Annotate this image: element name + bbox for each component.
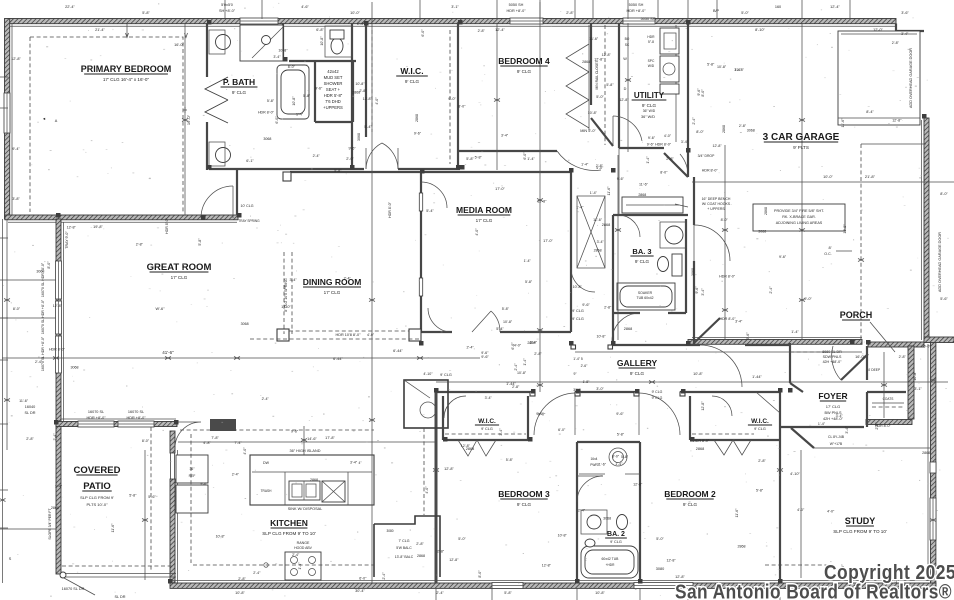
svg-text:9' CLG: 9' CLG (754, 427, 766, 431)
wall south (170, 581, 936, 589)
dim ext top 3 (496, 0, 498, 19)
dim line y529 left (0, 528, 56, 530)
svg-text:TRASH: TRASH (261, 489, 273, 493)
dim ext left 5 (0, 423, 8, 425)
svg-text:KITCHEN: KITCHEN (270, 518, 308, 528)
svg-text:W.I.C.: W.I.C. (751, 418, 769, 425)
svg-text:2'-8": 2'-8" (666, 157, 674, 161)
svg-text:10'-8": 10'-8" (558, 533, 568, 537)
svg-text:PLTS 10'-0": PLTS 10'-0" (86, 502, 108, 507)
svg-text:5'0x5'0: 5'0x5'0 (221, 3, 233, 7)
svg-text:5'-0": 5'-0" (596, 95, 604, 99)
svg-text:11'-6": 11'-6" (597, 462, 607, 466)
svg-text:3068: 3068 (758, 229, 766, 233)
dim line y280 left (0, 279, 56, 281)
svg-text:1'-4": 1'-4" (55, 485, 63, 489)
wall garage-NE-jog (896, 24, 924, 32)
dashed kitchen slope (180, 419, 374, 563)
svg-text:2868: 2868 (415, 114, 419, 122)
label gallery (573, 357, 662, 400)
dim ext top 1 (261, 0, 263, 19)
door linen double (366, 143, 398, 169)
svg-text:HDR +8'-0": HDR +8'-0" (626, 9, 646, 13)
svg-text:7'-8": 7'-8" (211, 436, 219, 440)
svg-text:12'-8": 12'-8" (11, 57, 21, 61)
wall ba3-west x613 (612, 215, 686, 345)
svg-text:5'-0": 5'-0" (656, 537, 664, 541)
svg-text:5'-8": 5'-8" (129, 493, 137, 497)
window greatsouth W7 (78, 421, 114, 427)
wall pbath-west x207 (207, 23, 237, 215)
svg-text:SOAKER: SOAKER (638, 291, 653, 295)
dashed kitchen 2 (193, 563, 374, 567)
dim vert left a (2, 219, 4, 583)
svg-text:9' CLG: 9' CLG (517, 69, 532, 74)
svg-text:2'-4": 2'-4" (382, 572, 386, 580)
svg-text:12'-8": 12'-8" (892, 118, 902, 122)
svg-text:4": 4" (359, 461, 362, 465)
svg-text:HDR +8'-0": HDR +8'-0" (506, 9, 526, 13)
fixture utility counter (625, 35, 656, 68)
label bedroom3 (498, 489, 550, 507)
wall pbath-south (209, 168, 460, 170)
svg-text:3068: 3068 (263, 137, 271, 141)
svg-text:3'-4": 3'-4" (501, 134, 509, 138)
door bedroom3 (530, 392, 580, 435)
svg-text:2'-8": 2'-8" (604, 305, 612, 309)
dim line y350 gallery (575, 351, 862, 353)
svg-text:RK. X-BRACE GAR.: RK. X-BRACE GAR. (782, 215, 816, 219)
door patio (175, 422, 201, 448)
svg-text:ADD OVERHEAD GARAGE DOOR: ADD OVERHEAD GARAGE DOOR (938, 232, 942, 292)
svg-text:30'-4": 30'-4" (355, 589, 365, 593)
svg-text:7'6 DHD: 7'6 DHD (325, 99, 341, 104)
svg-text:SHOWER: SHOWER (324, 81, 343, 86)
fixture ba3 sink (660, 222, 686, 248)
svg-text:8'-0": 8'-0" (458, 105, 466, 109)
svg-text:17' CLG 16'-4" x 16'-0": 17' CLG 16'-4" x 16'-0" (103, 77, 150, 82)
svg-text:5'-8": 5'-8" (525, 280, 533, 284)
svg-text:2'-4": 2'-4" (253, 571, 261, 575)
svg-text:10'-8": 10'-8" (693, 372, 703, 376)
dim ext top 4 (539, 0, 541, 19)
svg-text:12'-8": 12'-8" (67, 226, 77, 230)
wall east-lower (928, 340, 936, 583)
svg-text:1'-4": 1'-4" (818, 422, 826, 426)
svg-text:12'-8": 12'-8" (461, 444, 471, 448)
svg-text:3'-4": 3'-4" (836, 414, 844, 418)
dim ext bottom 4 (687, 588, 689, 600)
label bedroom4 (498, 56, 550, 74)
svg-text:PROVIDE 3/4" FIRE 5/8" SHT.: PROVIDE 3/4" FIRE 5/8" SHT. (774, 209, 824, 213)
wall greatroom-south (56, 419, 177, 427)
svg-text:4'-10": 4'-10" (790, 472, 800, 476)
svg-text:9'-6": 9'-6" (348, 146, 356, 150)
fixture dryer (660, 56, 679, 94)
svg-text:5"-8: 5"-8 (648, 40, 654, 44)
svg-text:4'-6": 4'-6" (301, 5, 309, 9)
svg-text:2'-4": 2'-4" (313, 154, 321, 158)
window greatwest W6b (56, 336, 62, 373)
door ba3 (618, 215, 640, 237)
dim line x618 (617, 155, 619, 340)
svg-text:2868: 2868 (594, 248, 602, 252)
svg-text:ADD OVERHEAD GARAGE DOOR: ADD OVERHEAD GARAGE DOOR (909, 48, 913, 108)
svg-text:36" HIGH ISLAND: 36" HIGH ISLAND (290, 449, 321, 453)
svg-text:2868: 2868 (51, 506, 59, 510)
svg-text:14'-6": 14'-6" (307, 437, 317, 441)
dashed study (765, 564, 830, 566)
svg-text:8'-4": 8'-4" (866, 110, 874, 114)
label patio (82, 481, 111, 492)
svg-text:2'-4": 2'-4" (514, 363, 518, 371)
svg-text:9'-6": 9'-6" (648, 136, 656, 140)
svg-text:DW: DW (263, 461, 270, 465)
svg-text:3'-4": 3'-4" (735, 320, 743, 324)
svg-text:5'-4": 5'-4" (364, 125, 372, 129)
fixture ba2 tub (581, 546, 638, 578)
svg-text:10'-0": 10'-0" (823, 175, 833, 179)
wall garage-east (922, 118, 930, 342)
svg-text:10'-8": 10'-8" (595, 591, 605, 595)
svg-text:6'-0": 6'-0" (538, 412, 546, 416)
svg-text:2'-8": 2'-8" (566, 11, 574, 15)
svg-text:17'-8": 17'-8" (325, 436, 335, 440)
svg-text:19'-8": 19'-8" (93, 225, 103, 229)
dim ext bottom 2 (576, 588, 578, 600)
dim line y380 gallery (436, 381, 948, 383)
svg-text:PORCH: PORCH (840, 310, 873, 320)
dim ext left 6 (0, 489, 8, 491)
wall foyer-west x790 (790, 343, 803, 392)
fixture tub primary (277, 65, 309, 119)
fixture island dw (322, 481, 345, 502)
porch leader (870, 322, 895, 352)
svg-text:W.I.C.: W.I.C. (478, 418, 496, 425)
svg-text:12'-8": 12'-8" (713, 144, 723, 148)
svg-text:◄: ◄ (42, 117, 46, 121)
label ba2 (605, 531, 627, 544)
label pbath (221, 77, 258, 95)
svg-text:11'-6": 11'-6" (841, 118, 845, 128)
window top W1 (240, 18, 278, 24)
dim line x884 porch (883, 352, 885, 418)
dim ext top 5 (574, 0, 576, 19)
svg-text:MIN 5'-0": MIN 5'-0" (580, 129, 596, 133)
svg-text:3068: 3068 (241, 322, 249, 326)
svg-text:11'-6": 11'-6" (589, 37, 599, 41)
svg-text:3'-4": 3'-4" (499, 428, 503, 436)
svg-text:10' CLG: 10' CLG (240, 204, 253, 208)
svg-text:5'-8": 5'-8" (303, 94, 311, 98)
svg-text:9'-6": 9'-6" (291, 430, 299, 434)
svg-text:9'-6": 9'-6" (414, 132, 422, 136)
svg-text:1'-44": 1'-44" (752, 375, 762, 379)
svg-text:5'-4": 5'-4" (496, 327, 504, 331)
dim ext top 11 (801, 0, 803, 19)
svg-text:9' CLG: 9' CLG (572, 317, 584, 321)
svg-text:1'-4": 1'-4" (357, 22, 365, 26)
svg-text:GALLERY: GALLERY (617, 358, 658, 368)
door ba2 (577, 476, 603, 502)
svg-text:TRAY SPRING: TRAY SPRING (238, 219, 260, 223)
svg-text:5'-8": 5'-8" (466, 157, 474, 161)
wall ne-band (924, 337, 954, 343)
svg-text:13'-8" BALC: 13'-8" BALC (395, 555, 414, 559)
svg-text:7' CLG: 7' CLG (398, 539, 409, 543)
fixture ba2 toilet (617, 515, 628, 530)
svg-text:BEDROOM 3: BEDROOM 3 (498, 489, 550, 499)
svg-text:12'-8": 12'-8" (542, 563, 552, 567)
svg-text:17' CLG: 17' CLG (826, 404, 841, 409)
svg-text:3'-0": 3'-0" (596, 387, 604, 391)
dim ext bottom 5 (779, 588, 781, 600)
fixture ba2 sink (581, 510, 607, 547)
svg-text:9'-6": 9'-6" (695, 286, 699, 294)
fixture mudshower walls (315, 62, 353, 122)
svg-text:16070 SL HDR +8'-0": 16070 SL HDR +8'-0" (41, 336, 45, 371)
wall media-east x571 (571, 172, 605, 332)
dim ext bottom 3 (639, 588, 641, 600)
label media room (456, 205, 512, 223)
svg-text:2868: 2868 (722, 125, 726, 133)
wall bed4-south (458, 151, 601, 170)
svg-text:16'-0": 16'-0" (855, 355, 865, 359)
dim ext left 1 (0, 107, 8, 109)
label ba3 (630, 247, 653, 264)
svg-text:SLOPE 3/4" PER FT: SLOPE 3/4" PER FT (48, 508, 52, 539)
svg-text:+ UPPERS: + UPPERS (707, 207, 725, 211)
dim ext bottom 0 (435, 588, 437, 600)
window south W10 (634, 583, 693, 589)
note range (294, 541, 312, 550)
dashed dining opening (284, 252, 292, 334)
door bed3 wic (444, 396, 466, 418)
svg-text:6'-0": 6'-0" (421, 29, 425, 37)
svg-text:11'-6": 11'-6" (111, 523, 115, 533)
svg-text:9' CLG: 9' CLG (440, 373, 452, 377)
svg-text:6'-1": 6'-1" (246, 159, 254, 163)
svg-text:9' CLG: 9' CLG (635, 259, 650, 264)
door bedroom2 (634, 392, 685, 435)
svg-text:2868: 2868 (922, 451, 930, 455)
door utility (664, 153, 715, 177)
svg-text:2'-4": 2'-4" (578, 508, 586, 512)
svg-text:8080 SL DR: 8080 SL DR (822, 350, 842, 354)
svg-text:6'-44": 6'-44" (393, 349, 403, 353)
svg-text:SL DR: SL DR (24, 411, 35, 415)
svg-text:3'-4": 3'-4" (901, 32, 909, 36)
wall study-diag (791, 428, 845, 578)
svg-text:2'-4": 2'-4" (692, 117, 696, 125)
svg-text:2'-4": 2'-4" (292, 553, 300, 557)
note entry (822, 350, 881, 372)
window south W9 (492, 583, 523, 589)
svg-text:8'-0": 8'-0" (612, 455, 620, 459)
svg-text:12'-8": 12'-8" (444, 467, 454, 471)
svg-text:3/4" DROP: 3/4" DROP (698, 154, 715, 158)
svg-text:1'-4": 1'-4" (791, 330, 799, 334)
note foyer sub (823, 404, 844, 421)
svg-text:5'-8": 5'-8" (617, 433, 625, 437)
svg-text:7'-4": 7'-4" (234, 441, 242, 445)
svg-text:1'-4" 5: 1'-4" 5 (573, 357, 583, 361)
svg-text:11'-6": 11'-6" (607, 186, 611, 196)
svg-text:12'-8": 12'-8" (53, 304, 63, 308)
svg-text:PATIO: PATIO (83, 481, 111, 492)
svg-text:BEDROOM 4: BEDROOM 4 (498, 56, 550, 66)
svg-text:12'-4": 12'-4" (830, 5, 840, 9)
door bed2 wic (712, 396, 732, 416)
svg-text:3'-6": 3'-6" (901, 11, 909, 15)
svg-text:10'-8": 10'-8" (597, 335, 607, 339)
svg-text:9' CLG: 9' CLG (517, 502, 532, 507)
svg-text:6'-0": 6'-0" (359, 576, 367, 580)
svg-text:COVERED: COVERED (74, 465, 121, 476)
svg-text:16070 SL HDR +8'-0": 16070 SL HDR +8'-0" (41, 299, 45, 334)
svg-text:STUDY: STUDY (845, 516, 876, 526)
svg-text:17' CLG: 17' CLG (324, 290, 341, 295)
svg-text:HDR 8'-0": HDR 8'-0" (655, 143, 672, 147)
label wic bed3 (475, 418, 499, 431)
svg-text:ADJOINING LIVING AREAS: ADJOINING LIVING AREAS (776, 221, 823, 225)
svg-text:8'-10": 8'-10" (755, 28, 765, 32)
svg-text:10'-8": 10'-8" (503, 320, 513, 324)
svg-text:11'-6": 11'-6" (19, 399, 29, 403)
wall pbath-hall (283, 23, 356, 61)
fixture island (250, 455, 374, 505)
svg-text:12'-8": 12'-8" (449, 558, 459, 562)
svg-text:B/P: B/P (713, 9, 720, 13)
svg-text:9' CLG: 9' CLG (683, 502, 698, 507)
svg-text:3068: 3068 (71, 366, 79, 370)
fixture toilet primary (325, 26, 352, 57)
dim line y182 garage (692, 174, 954, 182)
dim ext left 4 (0, 359, 8, 361)
svg-text:3'-4": 3'-4" (845, 426, 849, 434)
svg-text:2'-8": 2'-8" (739, 124, 747, 128)
closet foyer (872, 397, 904, 407)
svg-text:160: 160 (775, 5, 781, 9)
label wic bed2 (748, 418, 772, 431)
garage storage alcove (838, 31, 920, 125)
svg-text:TRAY 9'-0": TRAY 9'-0" (65, 231, 69, 249)
svg-text:HDR 8'-0": HDR 8'-0" (49, 348, 66, 352)
wall wic-west x366 (365, 23, 367, 137)
svg-text:8'-0": 8'-0" (288, 65, 296, 69)
svg-text:12'-8": 12'-8" (675, 575, 685, 579)
svg-text:2868: 2868 (582, 60, 590, 64)
svg-text:4'-0": 4'-0" (475, 228, 479, 236)
svg-text:SL DR: SL DR (114, 595, 125, 599)
closet bed3 wic (443, 396, 528, 456)
note storage text (909, 48, 913, 108)
svg-text:UTILITY: UTILITY (634, 91, 665, 100)
svg-text:12'-8": 12'-8" (701, 401, 705, 411)
closet bed2 wic (690, 392, 780, 455)
svg-text:MUD SET: MUD SET (324, 75, 343, 80)
svg-text:HDR 8'-0": HDR 8'-0" (693, 439, 710, 443)
svg-text:3068: 3068 (747, 129, 755, 133)
svg-text:3'-1": 3'-1" (914, 387, 922, 391)
svg-text:9' CLG: 9' CLG (642, 103, 657, 108)
svg-text:HDR 5'-8": HDR 5'-8" (324, 93, 343, 98)
svg-text:21'-8": 21'-8" (865, 174, 876, 179)
svg-text:HDR: HDR (647, 35, 655, 39)
svg-text:10'-8": 10'-8" (517, 371, 527, 375)
svg-text:HDR 8'-0": HDR 8'-0" (719, 275, 736, 279)
svg-text:9' CLG: 9' CLG (610, 540, 622, 544)
wall mud-top (613, 148, 688, 215)
wall greatroom-west (56, 219, 64, 426)
svg-text:1'-4": 1'-4" (615, 462, 623, 466)
window east W11 (930, 462, 936, 473)
wall ba2-west x577 (576, 442, 578, 583)
svg-text:3'-4": 3'-4" (681, 140, 689, 144)
note patio sub (80, 495, 114, 507)
svg-text:16070 SL: 16070 SL (128, 410, 144, 414)
label covered (74, 465, 121, 476)
svg-text:SLP CLG FROM 9' TO 10': SLP CLG FROM 9' TO 10' (262, 531, 316, 536)
svg-text:12'-8": 12'-8" (594, 58, 604, 62)
wall bed2-east x780 (779, 392, 781, 583)
svg-text:2'-6": 2'-6" (581, 364, 589, 368)
svg-text:TUB 60x42: TUB 60x42 (637, 296, 654, 300)
svg-text:8'-0": 8'-0" (478, 570, 482, 578)
dim ext top 0 (224, 0, 226, 19)
svg-text:REF: REF (189, 474, 196, 478)
dim ext left 7 (0, 527, 8, 529)
svg-text:17' CLG: 17' CLG (476, 218, 493, 223)
svg-text:2'-8": 2'-8" (512, 385, 520, 389)
svg-text:8'-0": 8'-0" (47, 261, 51, 269)
note garage oc (824, 245, 852, 256)
dim ext left 2 (0, 237, 8, 239)
svg-text:DINING ROOM: DINING ROOM (303, 277, 362, 287)
svg-text:10'-8": 10'-8" (573, 285, 583, 289)
copyright line2 (675, 582, 952, 600)
wall patio-west (56, 426, 61, 574)
svg-text:3'-4": 3'-4" (597, 240, 605, 244)
dim line x185 (183, 23, 191, 215)
svg-text:3068: 3068 (357, 133, 361, 141)
svg-text:21'-4": 21'-4" (95, 28, 105, 32)
svg-text:12'-0": 12'-0" (873, 28, 883, 32)
svg-text:8'-0": 8'-0" (696, 130, 704, 134)
svg-text:10'-8": 10'-8" (843, 224, 847, 234)
svg-text:2868: 2868 (738, 544, 746, 548)
window greatsouth W8 (118, 421, 154, 427)
label wic primary (396, 66, 428, 84)
svg-text:3'-4": 3'-4" (273, 55, 281, 59)
svg-text:12'-8": 12'-8" (602, 53, 612, 57)
svg-text:10'-8": 10'-8" (292, 96, 296, 106)
svg-text:5'-8": 5'-8" (606, 83, 614, 87)
svg-text:17'-0": 17'-0" (281, 305, 291, 309)
svg-text:3068: 3068 (36, 269, 44, 273)
svg-text:9'-6": 9'-6" (746, 332, 750, 340)
svg-text:HDR 8'-0": HDR 8'-0" (258, 111, 275, 115)
svg-text:4'-0": 4'-0" (375, 97, 379, 105)
svg-text:5'-6": 5'-6" (940, 297, 948, 301)
dim ext top 9 (687, 0, 689, 19)
wall media-top (290, 171, 571, 173)
window left W4 (4, 93, 10, 133)
svg-text:9'-6": 9'-6" (481, 355, 489, 359)
dim ext top 7 (627, 0, 629, 19)
svg-text:11'-6": 11'-6" (735, 508, 739, 518)
wall kitchen-bed3 x436 (435, 392, 438, 583)
